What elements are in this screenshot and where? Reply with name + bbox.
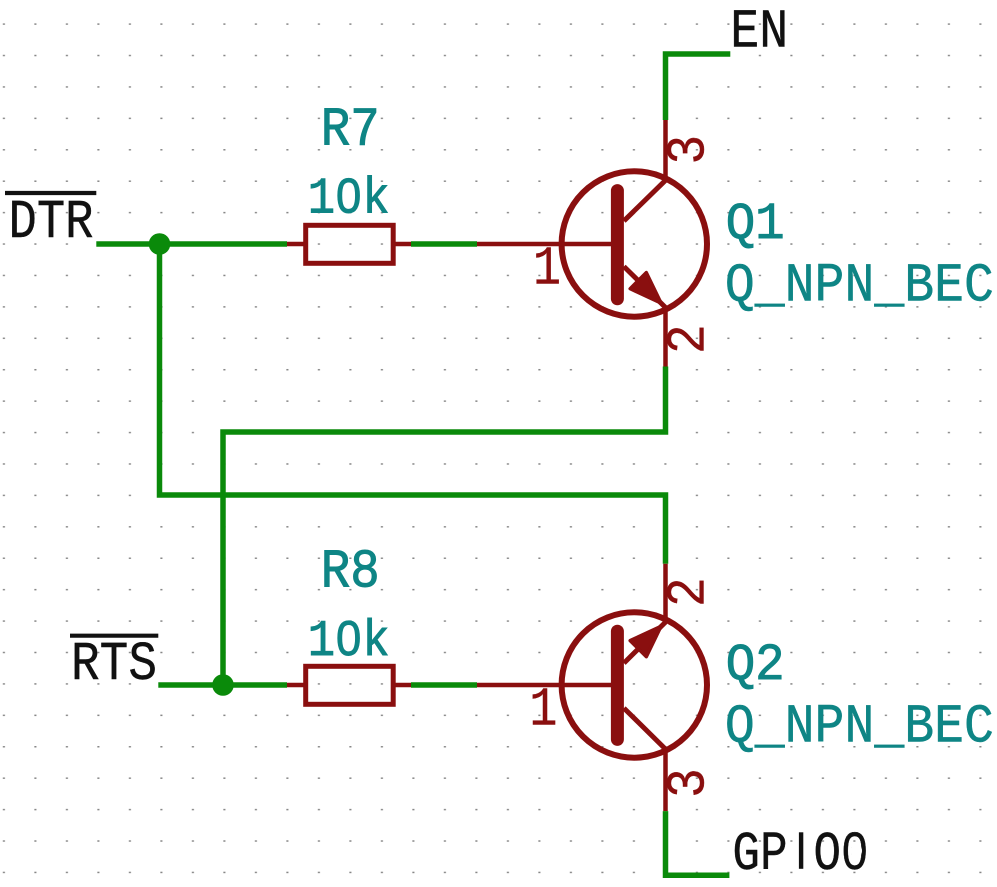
svg-text:GP: GP	[732, 825, 787, 886]
svg-text:Q_NPN_BEC: Q_NPN_BEC	[725, 257, 994, 318]
wire DTR junction to R7	[160, 241, 288, 247]
label DTR	[5, 193, 96, 254]
svg-text:1: 1	[533, 239, 561, 300]
wire RTS junction to R8	[223, 682, 287, 688]
wire R8 to Q2 base	[411, 682, 477, 688]
wire DTR lead	[96, 241, 159, 247]
svg-text:EN: EN	[730, 2, 788, 63]
junction RTS node	[212, 674, 234, 696]
junction DTR node	[149, 233, 171, 255]
label RTS	[70, 635, 158, 696]
svg-text:Q2: Q2	[726, 636, 785, 695]
resistor R7	[287, 225, 411, 263]
svg-text:R7: R7	[321, 101, 380, 162]
svg-text:Q_NPN_BEC: Q_NPN_BEC	[725, 698, 994, 759]
wire EN	[666, 54, 731, 120]
svg-text:3: 3	[660, 768, 721, 798]
wire GPIO0	[666, 811, 730, 875]
svg-text:DTR: DTR	[9, 193, 94, 254]
svg-text:RTS: RTS	[71, 635, 157, 696]
wire Q1 emitter down-left to RTS node	[223, 367, 666, 686]
svg-text:2: 2	[660, 324, 721, 354]
transistor Q1	[477, 120, 707, 367]
wire R7 to Q1 base	[411, 241, 477, 247]
wire DTR node down-right to Q2 base rail	[160, 244, 666, 564]
svg-text:1: 1	[529, 680, 557, 741]
svg-text:2: 2	[660, 577, 721, 607]
resistor R8	[287, 666, 411, 704]
transistor Q2	[477, 564, 707, 811]
svg-text:3: 3	[660, 135, 721, 165]
svg-text:Q1: Q1	[726, 195, 785, 254]
svg-text:R8: R8	[321, 543, 380, 604]
wire RTS lead	[158, 682, 223, 688]
